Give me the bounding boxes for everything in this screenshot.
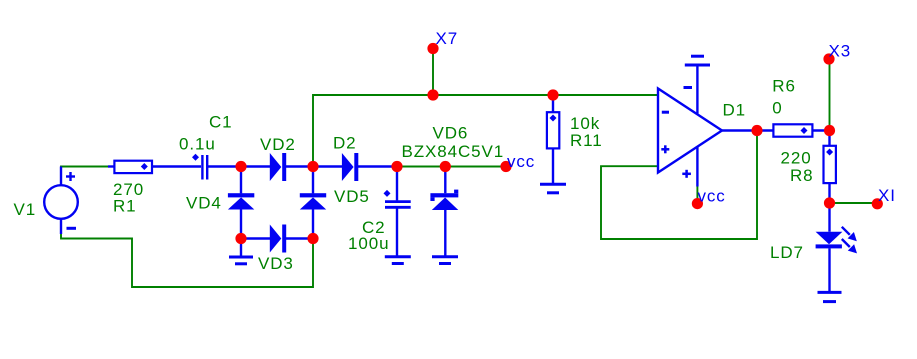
- zener diode VD6: [430, 193, 458, 197]
- wire VD4 branch: [240, 167, 242, 194]
- wire output node to R6: [757, 129, 773, 131]
- resistor R1: [114, 161, 152, 173]
- ground op-amp top (pointing up): [685, 64, 710, 67]
- wire ground stem bridge: [240, 239, 242, 256]
- wire bridge bottom row: [241, 237, 270, 239]
- wire vcc net on main line: [397, 166, 506, 168]
- wire R11 stems: [552, 95, 554, 112]
- diode VD2: [270, 153, 282, 181]
- wire node to D2: [313, 165, 342, 167]
- svg-text:VD5: VD5: [334, 187, 370, 206]
- resistor R11: [547, 112, 559, 148]
- svg-text:VD4: VD4: [186, 194, 222, 213]
- svg-text:C1: C1: [209, 113, 233, 132]
- svg-text:0.1u: 0.1u: [179, 135, 216, 154]
- ground R11: [540, 183, 566, 186]
- svg-text:LD7: LD7: [770, 243, 804, 262]
- svg-text:BZX84C5V1: BZX84C5V1: [402, 142, 505, 161]
- wire op-amp top power pin: [696, 66, 698, 114]
- wire V1 bottom return loop: [61, 221, 313, 287]
- svg-text:vcc: vcc: [507, 152, 535, 171]
- wire C2 stems: [396, 167, 398, 201]
- svg-text:R11: R11: [570, 131, 603, 150]
- op-amp U1: [658, 89, 722, 173]
- svg-text:220: 220: [781, 149, 812, 168]
- LED arrows: [842, 227, 850, 235]
- svg-text:D1: D1: [723, 101, 747, 120]
- node junction dots: [235, 161, 246, 172]
- wire R1 to C1: [152, 165, 201, 167]
- svg-text:V1: V1: [14, 200, 37, 219]
- wire VD2 to node: [286, 165, 313, 167]
- wire op-amp vcc stub: [696, 186, 698, 204]
- diode VD5: [300, 193, 326, 197]
- wire X3 stub: [829, 59, 831, 131]
- svg-text:D2: D2: [333, 134, 357, 153]
- svg-text:vcc: vcc: [698, 186, 726, 205]
- wire op-amp bottom power pin: [696, 145, 698, 187]
- resistor R8: [824, 146, 836, 183]
- svg-text:VD3: VD3: [258, 254, 294, 273]
- wire V1 top to R1: [61, 167, 109, 186]
- wire D2 to C2 node: [358, 165, 397, 167]
- svg-text:R6: R6: [772, 77, 796, 96]
- svg-text:VD6: VD6: [433, 124, 469, 143]
- ground bridge: [229, 256, 253, 259]
- svg-text:0: 0: [772, 99, 782, 118]
- wire V1 top pin: [60, 167, 62, 186]
- LED LD7: [816, 232, 843, 245]
- svg-text:X7: X7: [436, 29, 459, 48]
- wire LED stems: [828, 203, 830, 232]
- svg-text:VD2: VD2: [260, 135, 296, 154]
- svg-text:X3: X3: [829, 42, 852, 61]
- diode VD4: [228, 193, 254, 197]
- svg-text:100u: 100u: [348, 234, 389, 253]
- ground C2: [385, 255, 411, 258]
- capacitor C2: [385, 200, 411, 203]
- voltage source V1: [44, 185, 78, 219]
- svg-text:R8: R8: [790, 166, 814, 185]
- resistor R6: [773, 124, 812, 136]
- wire R6 to node: [812, 129, 829, 131]
- wire XI stub: [830, 202, 878, 204]
- wire op-amp output: [722, 129, 757, 131]
- wire VD6 stems: [444, 167, 446, 194]
- diode D2: [342, 153, 354, 181]
- diode VD3: [270, 225, 282, 253]
- wire node to VD2: [241, 165, 270, 167]
- svg-text:R1: R1: [113, 197, 137, 216]
- svg-text:XI: XI: [878, 186, 896, 205]
- wire VD5 branch: [312, 167, 314, 194]
- ground LED: [818, 291, 842, 294]
- wire X7 stub: [432, 49, 434, 96]
- wire V1 bottom pin: [60, 219, 62, 235]
- wire C1 to node: [208, 165, 241, 167]
- wire feedback loop from output to non-inverting input: [601, 131, 757, 240]
- wire R8 stems: [828, 131, 830, 146]
- wire X7 net: bridge top-right up and across to op-amp inverting input: [313, 95, 658, 167]
- wire R1 lead left: [108, 165, 114, 167]
- ground VD6: [432, 255, 458, 258]
- capacitor C1: [201, 155, 203, 180]
